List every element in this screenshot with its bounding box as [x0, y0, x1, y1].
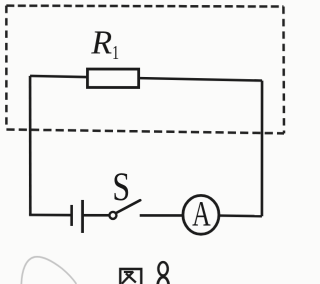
svg-text:S: S [112, 164, 130, 209]
svg-text:A: A [192, 193, 211, 233]
svg-text:R: R [90, 24, 112, 61]
svg-text:1: 1 [112, 42, 119, 64]
